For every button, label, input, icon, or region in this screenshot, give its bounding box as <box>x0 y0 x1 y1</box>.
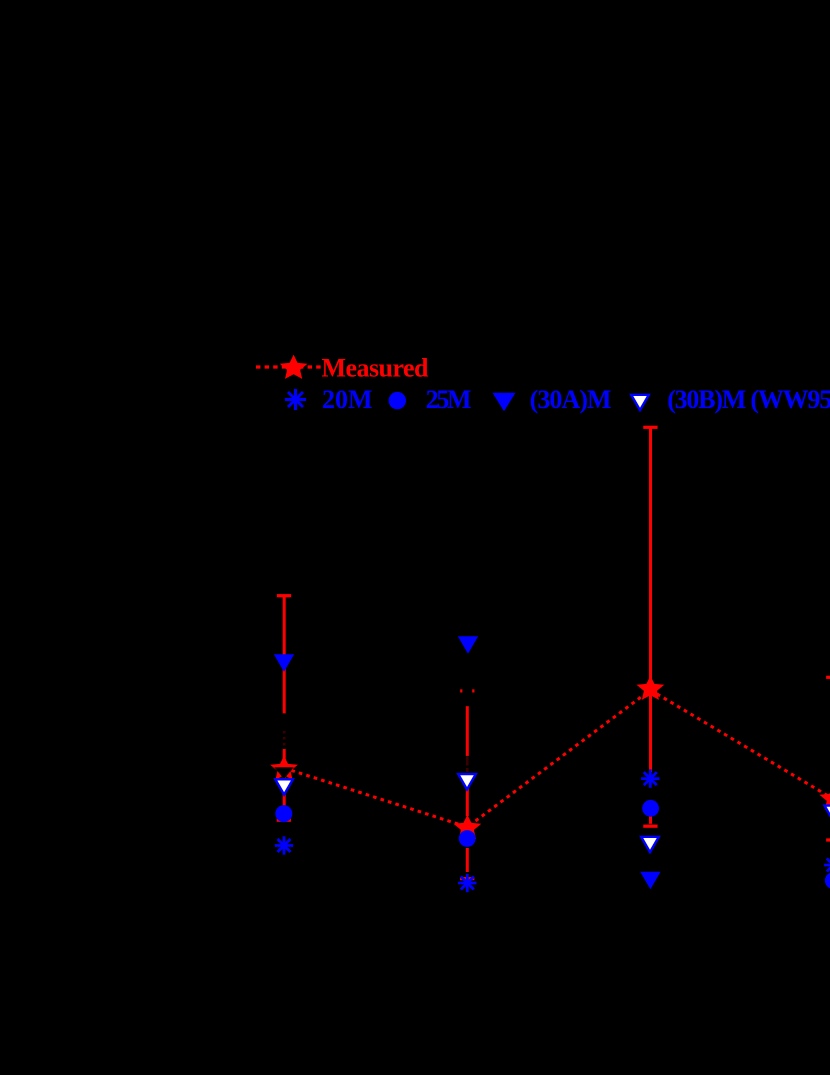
svg-text:(30A)M: (30A)M <box>530 385 612 414</box>
svg-text:(30B)M (WW95: (30B)M (WW95 <box>667 385 830 414</box>
svg-text:20M: 20M <box>322 385 373 414</box>
svg-text:Measured: Measured <box>322 354 430 383</box>
svg-text:25M: 25M <box>426 385 472 414</box>
